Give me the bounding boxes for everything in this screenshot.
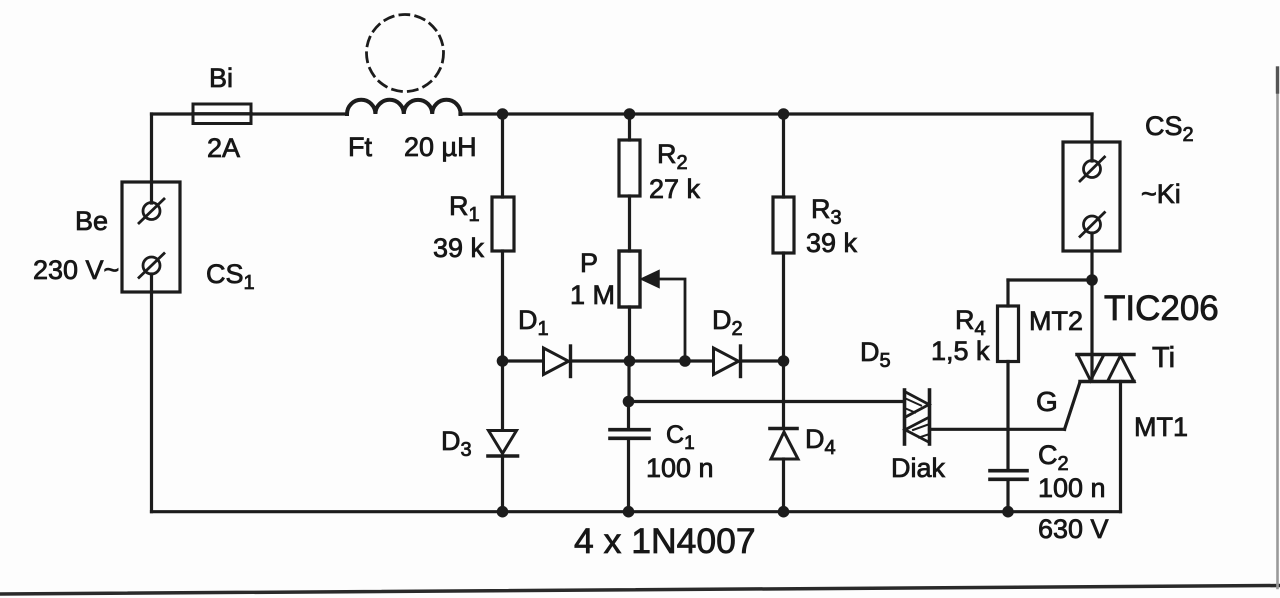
wire CS2 bottom to node (1090, 233, 1093, 280)
wire CS2 feed from node to R4 (1008, 278, 1092, 281)
resistor R1 (492, 197, 514, 251)
node CS2 MT2 (1086, 274, 1098, 286)
potentiometer wiper arrow (641, 271, 685, 362)
svg-text:D3: D3 (441, 426, 472, 461)
svg-text:D5: D5 (860, 337, 891, 372)
node top R1 (497, 108, 509, 120)
wire diac to gate node (930, 428, 1065, 431)
node wiper join (679, 355, 691, 367)
svg-text:G: G (1036, 386, 1058, 417)
svg-text:100 n: 100 n (646, 453, 714, 483)
svg-text:R2: R2 (657, 139, 688, 174)
svg-text:20 µH: 20 µH (404, 132, 477, 162)
potentiometer P body (619, 251, 640, 307)
triac gate lead (1065, 382, 1081, 429)
node top R3 (778, 108, 790, 120)
wire C1 node down to C1 (627, 402, 630, 430)
svg-text:TIC206: TIC206 (1104, 289, 1219, 328)
svg-text:C2: C2 (1038, 440, 1069, 475)
CS1 pin 2 (139, 254, 164, 278)
diode D2 (714, 346, 741, 377)
node rail C1 (623, 506, 635, 518)
capacitor C2 (990, 471, 1027, 480)
wire D1 node down to D3 (501, 361, 504, 430)
svg-text:Bi: Bi (209, 63, 233, 93)
wire R4 to C2 (1006, 362, 1009, 471)
resistor R3 (773, 197, 794, 253)
wire P node down to C1 node (627, 361, 630, 402)
svg-text:1 M: 1 M (570, 280, 615, 310)
svg-text:230 V~: 230 V~ (33, 255, 119, 285)
svg-text:MT2: MT2 (1029, 306, 1083, 336)
wire R1 to D1 node (501, 251, 504, 361)
svg-text:D2: D2 (712, 305, 743, 340)
wire D3 to bottom rail (501, 456, 504, 512)
wire CS1 bottom to bottom rail (150, 274, 153, 512)
svg-text:Diak: Diak (891, 453, 946, 483)
svg-text:27 k: 27 k (649, 174, 701, 204)
svg-text:P: P (580, 248, 598, 278)
node rail C2 (1002, 506, 1014, 518)
CS2 pin 1 (1080, 157, 1105, 181)
svg-text:D1: D1 (518, 305, 549, 340)
svg-text:1,5 k: 1,5 k (931, 336, 990, 366)
triac MT1 lead (1119, 382, 1122, 512)
node D2 R3 (778, 355, 790, 367)
node D1 R1 (497, 355, 509, 367)
wire C2 to bottom rail (1006, 479, 1009, 511)
svg-text:100 n: 100 n (1038, 473, 1106, 503)
wire bottom rail (152, 510, 1121, 513)
svg-text:39 k: 39 k (806, 228, 858, 258)
wire D2 node down to D4 (782, 361, 785, 429)
wire R2 to P (628, 196, 631, 251)
connector CS1 box (122, 182, 180, 292)
svg-text:Ti: Ti (1152, 342, 1175, 374)
svg-text:D4: D4 (805, 424, 836, 459)
CS1 pin 1 (139, 199, 164, 223)
toroid core (dashed circle) (367, 15, 444, 92)
diode D1 (544, 346, 571, 377)
svg-text:~Ki: ~Ki (1141, 179, 1181, 209)
diode D4 (770, 429, 798, 460)
wire C1 node to diac (629, 400, 905, 403)
node C1 top (623, 396, 635, 408)
resistor R2 (619, 140, 640, 196)
svg-text:CS2: CS2 (1145, 111, 1194, 146)
svg-text:39 k: 39 k (433, 233, 485, 263)
wire left vertical from top corner to CS1 (150, 114, 153, 203)
wire R3 branch top (782, 114, 785, 197)
node rail D3 (497, 506, 509, 518)
svg-text:Ft: Ft (348, 132, 372, 162)
bottom scan border (0, 586, 1280, 595)
wire R3 to D2 node (782, 253, 785, 361)
capacitor C1 (610, 430, 649, 439)
svg-text:MT1: MT1 (1134, 412, 1188, 442)
wire top into CS2 (1090, 114, 1093, 161)
svg-text:C1: C1 (666, 421, 695, 454)
node top R2 (624, 108, 636, 120)
svg-text:630 V: 630 V (1038, 514, 1109, 544)
wire R2 branch top (628, 114, 631, 140)
connector CS2 box (1063, 142, 1120, 251)
svg-text:4 x 1N4007: 4 x 1N4007 (574, 521, 756, 561)
right scan border (1276, 68, 1279, 588)
triac TIC206 (1077, 355, 1134, 382)
wire top horizontal main (152, 112, 1093, 115)
wire D4 to bottom rail (782, 459, 785, 512)
svg-text:Be: Be (75, 206, 108, 236)
resistor R4 (998, 306, 1019, 362)
wire D1-D2 horizontal (503, 359, 784, 362)
CS2 pin 2 (1080, 213, 1105, 237)
wire R1 branch top (501, 114, 504, 197)
inductor Ft 20uH (347, 100, 461, 114)
svg-text:R3: R3 (811, 194, 842, 229)
node P bottom (624, 355, 636, 367)
diode D3 (488, 431, 518, 457)
wire C1 to bottom rail (627, 438, 630, 511)
svg-text:CS1: CS1 (206, 259, 255, 294)
svg-text:R1: R1 (449, 191, 480, 226)
diac D5 (905, 390, 930, 444)
svg-text:2A: 2A (207, 133, 240, 163)
wire R4 top (1006, 280, 1009, 306)
fuse Bi (193, 104, 251, 124)
wire P bottom to D1-D2 rail (628, 307, 631, 361)
triac U1 TIC206 MT2 lead (1090, 280, 1093, 378)
node rail D4 (778, 506, 790, 518)
svg-text:R4: R4 (955, 305, 986, 340)
